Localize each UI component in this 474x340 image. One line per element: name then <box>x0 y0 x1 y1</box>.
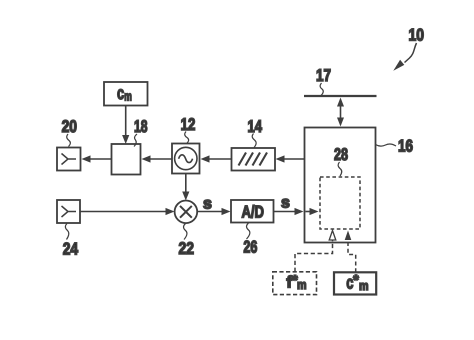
wire: antenna 24 to mixer 22 with arrow <box>80 208 175 215</box>
wire: double-headed arrow between line 17 and box 16 <box>337 98 344 127</box>
svg-text:18: 18 <box>134 117 148 136</box>
box c_m <box>104 82 148 106</box>
dashed box 28 <box>320 177 360 229</box>
A/D converter 26 <box>231 200 274 223</box>
svg-text:m: m <box>124 88 132 103</box>
svg-text:A/D: A/D <box>241 203 264 222</box>
svg-text:16: 16 <box>398 137 413 156</box>
label 24 <box>63 224 79 259</box>
antenna 20 <box>57 148 81 171</box>
box 18 <box>112 144 141 175</box>
antenna line 17 <box>304 95 377 97</box>
box 16 <box>305 128 376 243</box>
antenna 24 <box>57 200 80 223</box>
label 26 <box>243 223 257 256</box>
label 18 <box>134 117 148 147</box>
wire: box 14 to oscillator 12 with arrow <box>201 155 232 162</box>
dashed box f*m <box>273 272 317 295</box>
svg-text:10: 10 <box>409 26 425 45</box>
wire: oscillator 12 to box 18 with arrow <box>142 155 173 162</box>
box c*m <box>334 272 376 295</box>
label 20 <box>62 117 77 147</box>
label 16 <box>376 137 414 156</box>
svg-text:20: 20 <box>62 117 77 136</box>
label 17 <box>316 66 331 96</box>
label 10 <box>393 26 424 71</box>
svg-text:s: s <box>281 195 290 212</box>
wire: box 16 to box 14 with arrow <box>276 155 305 162</box>
dashed wire: f*m up to dashed box 28, open arrow <box>295 231 336 272</box>
label 22 <box>179 224 195 258</box>
svg-text:22: 22 <box>179 239 195 258</box>
svg-text:14: 14 <box>248 117 263 136</box>
svg-text:24: 24 <box>63 239 79 258</box>
svg-text:28: 28 <box>334 145 348 164</box>
hatched box 14 <box>232 148 276 171</box>
svg-text:c: c <box>117 83 124 103</box>
mixer 22 <box>175 201 198 224</box>
label 12 <box>181 115 196 144</box>
svg-text:m: m <box>297 277 307 292</box>
svg-text:26: 26 <box>243 237 257 256</box>
svg-text:s: s <box>203 196 212 213</box>
wire: A/D to box 16 and dashed box 28, two arrows, label s <box>274 195 319 216</box>
svg-text:12: 12 <box>181 115 196 134</box>
wire: oscillator 12 down to mixer 22 with arrow <box>182 174 189 201</box>
svg-text:m: m <box>359 278 369 293</box>
label 14 <box>248 117 263 148</box>
dashed wire: c*m up to dashed box 28, filled arrow <box>345 231 356 273</box>
wire: mixer 22 to A/D with arrow, label s <box>197 196 230 216</box>
wire: box 18 to antenna 20 with arrow <box>82 155 112 162</box>
svg-text:17: 17 <box>316 66 331 85</box>
label 28 <box>334 145 348 176</box>
wire: c_m down to box 18 with arrow <box>122 106 129 145</box>
oscillator 12 <box>172 144 200 174</box>
